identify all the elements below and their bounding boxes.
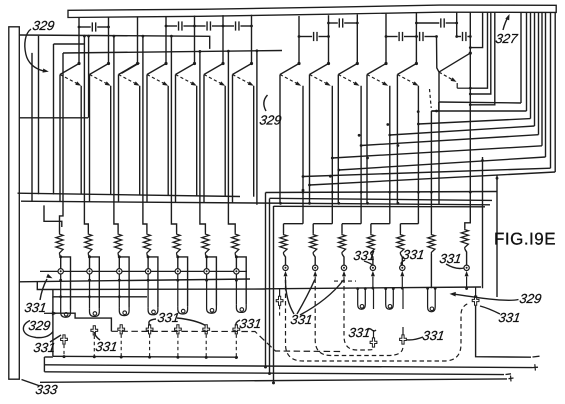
resistor R7 bbox=[232, 233, 239, 255]
node lamp N3 bbox=[118, 255, 119, 257]
svg-text:331: 331 bbox=[498, 310, 522, 325]
transistor Q13 (wide) bbox=[469, 52, 472, 55]
wire: rail y195 bbox=[18, 193, 241, 196]
wire: feed from top bus to transistor Q7 bbox=[251, 15, 253, 64]
wire: fan elbow stage Q12 bbox=[431, 102, 438, 111]
wire: Q13 emitter ladder bbox=[456, 83, 458, 88]
wire: emitter drop of stage 7 bbox=[253, 86, 255, 197]
capacitor C5 bbox=[329, 22, 338, 24]
capacitor C9 bbox=[416, 36, 418, 38]
resistor R12 bbox=[397, 233, 404, 254]
filament loop F bbox=[358, 289, 366, 310]
wire: drop R13 to rail bbox=[430, 254, 432, 288]
wire: rail through lamps y271.5 bbox=[40, 270, 58, 272]
wire: bus from left bar at y35 bbox=[19, 35, 210, 49]
wire: collector drop stage 9 bbox=[309, 75, 311, 204]
wire: emitter drop stage 8 feeding resistor bbox=[302, 86, 304, 224]
wire: enclosure drop 2 bbox=[269, 199, 271, 374]
wire: elbow to filament F3 bbox=[119, 257, 129, 308]
wire: collector drop stage 13 bbox=[438, 72, 440, 204]
wire: emitter drop stage 11 feeding resistor bbox=[389, 86, 391, 224]
wire: right rail y288.5 bbox=[266, 287, 482, 289]
svg-text:333: 333 bbox=[35, 382, 60, 397]
left supply bus bar (vertical) bbox=[9, 27, 19, 379]
terminal cross T6 bbox=[203, 325, 210, 334]
resistor R8 bbox=[280, 233, 287, 254]
wire: bottom bus 4 bbox=[40, 379, 507, 382]
capacitor C4 bbox=[223, 25, 234, 27]
wire: long rail y203 bbox=[21, 201, 490, 205]
wire: dashed loop a (outer) bbox=[286, 279, 469, 362]
wire: feed from top bus to transistor Q4 bbox=[165, 16, 167, 64]
wire: bottom bus 1 right segment with tick bbox=[476, 306, 531, 357]
wire: filament rail y297 bbox=[53, 289, 147, 297]
wire: emitter drop of stage 1 bbox=[80, 86, 82, 194]
terminal cross T2 bbox=[91, 326, 98, 335]
wire: right margin long drop bbox=[496, 175, 498, 298]
junction dots in fan region bbox=[308, 184, 311, 187]
node lamp N10 bbox=[342, 254, 344, 265]
resistor R14 bbox=[461, 228, 468, 249]
wire: hook feeding resistor R1 bbox=[60, 53, 64, 233]
wire: elbow to filament F5 bbox=[178, 257, 188, 306]
wire: feed to transistor Q13 bbox=[469, 12, 471, 105]
terminal cross T11 (right) bbox=[472, 296, 479, 305]
resistor R4 bbox=[143, 233, 150, 255]
wire: stub bus at y44 bbox=[54, 43, 85, 45]
node lamp N5 bbox=[177, 255, 178, 257]
filament loop F3 bbox=[119, 308, 129, 316]
wire: collector drop of stage 2 bbox=[89, 75, 91, 202]
node lamp N11 bbox=[371, 254, 373, 265]
resistor R11 bbox=[367, 233, 374, 254]
filament loop F7 bbox=[236, 305, 246, 313]
svg-text:327: 327 bbox=[495, 31, 520, 46]
svg-text:331: 331 bbox=[239, 316, 263, 331]
wire: collector drop of stage 5 bbox=[175, 75, 177, 203]
svg-text:329: 329 bbox=[32, 18, 56, 33]
terminal cross T7 bbox=[233, 325, 240, 334]
wire: long dash feeder bbox=[111, 331, 341, 351]
wire: fan line 6 bbox=[332, 146, 542, 158]
wire: nested return 1 bbox=[470, 12, 487, 88]
wire: return bus to left bar at y118 bbox=[19, 117, 88, 119]
node lamp N4 bbox=[147, 255, 148, 257]
transistor Q8 bbox=[297, 62, 300, 65]
wire: collector drop of stage 4 bbox=[146, 75, 148, 203]
wire: fan line 5 bbox=[361, 135, 538, 146]
capacitor C7 bbox=[299, 36, 312, 38]
filament loop F5 bbox=[178, 306, 188, 314]
transistor Q2 bbox=[107, 62, 110, 65]
wire: collector drop of stage 7 bbox=[232, 75, 234, 203]
wire: feed from top bus to transistor Q2 bbox=[108, 17, 110, 64]
wire: bypass drop of stage 6 bbox=[227, 50, 230, 53]
wire: feed from top bus to transistor Q11 bbox=[385, 14, 387, 64]
wire: long bus at y52 bbox=[63, 51, 282, 54]
svg-text:331: 331 bbox=[402, 247, 426, 262]
wire: Q13 feed continues to resistor R14 bbox=[465, 105, 471, 228]
wire: bypass drop of stage 7 bbox=[256, 49, 259, 52]
svg-text:331: 331 bbox=[439, 251, 463, 266]
wire: elbow to filament F6 bbox=[207, 257, 217, 306]
wire: emitter drop stage 12 feeding resistor bbox=[417, 86, 419, 224]
wire: collector drop of stage 6 bbox=[203, 75, 205, 203]
wire: emitter drop of stage 6 bbox=[224, 86, 226, 196]
wire: feed from top bus to transistor Q12 bbox=[415, 13, 417, 64]
wire: fan line 2 bbox=[431, 110, 526, 112]
capacitor C3 bbox=[195, 25, 206, 27]
wire: rail step y290 bbox=[37, 282, 265, 290]
wire: bypass drop of stage 4 bbox=[170, 35, 173, 38]
wire: emitter drop of stage 2 bbox=[110, 86, 112, 195]
wire: rail from bar y280 bbox=[19, 279, 250, 282]
wire: feed from top bus to transistor Q10 bbox=[356, 14, 358, 63]
wire: feed from top bus to transistor Q9 bbox=[328, 15, 330, 63]
wire: bypass drop of stage 3 bbox=[142, 35, 145, 38]
wire: elbow to filament F4 bbox=[148, 257, 158, 307]
svg-text:331: 331 bbox=[348, 325, 372, 340]
wire: feed from top bus to transistor Q1 bbox=[78, 17, 80, 63]
node lamp N2 bbox=[88, 255, 89, 257]
wire: bottom bus 2 bbox=[44, 365, 532, 368]
filament loop F6 bbox=[207, 306, 217, 314]
wire: collector drop stage 11 bbox=[366, 75, 368, 204]
wire: dashed loop b bbox=[315, 279, 403, 356]
wire: bottom bus 3 bbox=[44, 372, 504, 375]
wire: collector drop stage 8 bbox=[279, 75, 281, 204]
wire: nested return 3 bbox=[470, 12, 495, 105]
wire: collector drop stage 12 bbox=[396, 75, 398, 205]
wire: fan line 7 bbox=[339, 157, 546, 170]
wire: fan line 1 bbox=[439, 102, 521, 103]
wire: bottom bus 1 bbox=[52, 297, 54, 357]
capacitor C6 bbox=[416, 22, 439, 24]
transistor Q6 bbox=[221, 62, 224, 65]
terminal cross T5 bbox=[175, 325, 182, 334]
filament loop F1 bbox=[61, 310, 71, 318]
wire: feed from top bus to transistor Q3 bbox=[137, 16, 139, 63]
resistor R13 bbox=[428, 233, 435, 254]
terminal cross T3 bbox=[118, 325, 125, 334]
wire: nested return 2 bbox=[470, 12, 491, 94]
wire: enclosure drop 1 bbox=[265, 193, 267, 368]
resistor R5 bbox=[173, 233, 180, 255]
transistor Q12 bbox=[415, 62, 418, 65]
svg-text:329: 329 bbox=[28, 318, 52, 333]
filament loop F4 bbox=[148, 307, 158, 315]
wire: elbow to filament F7 bbox=[236, 257, 246, 305]
wire: bypass drop of stage 1 bbox=[83, 35, 86, 38]
capacitor C1 bbox=[79, 26, 91, 28]
svg-text:329: 329 bbox=[519, 291, 543, 306]
transistor Q7 bbox=[250, 62, 253, 65]
transistor Q5 bbox=[193, 62, 196, 65]
wire: feed from top bus to transistor Q6 bbox=[222, 15, 224, 63]
svg-text:331: 331 bbox=[24, 300, 48, 315]
node lamp N7 bbox=[235, 255, 236, 257]
svg-text:331: 331 bbox=[422, 328, 446, 343]
wire: elbow to filament F1 bbox=[61, 257, 71, 310]
transistor Q4 bbox=[164, 62, 167, 65]
transistor Q9 bbox=[327, 62, 330, 65]
svg-text:FIG.I9E: FIG.I9E bbox=[494, 230, 556, 249]
wire: emitter drop of stage 3 bbox=[139, 86, 141, 195]
resistor R9 bbox=[310, 233, 317, 254]
wire: lower fan lines bbox=[266, 192, 498, 193]
resistor R6 bbox=[202, 233, 209, 255]
terminal cross T1 bbox=[61, 335, 68, 344]
wire: bus2/3 left joins bbox=[43, 357, 45, 372]
terminal cross T9 bbox=[370, 338, 377, 347]
wire: elbow to filament F2 bbox=[90, 257, 100, 309]
junction dots on right rails bbox=[302, 191, 305, 194]
wire: short verticals near left bar bbox=[38, 36, 40, 194]
node lamp N1 bbox=[60, 255, 61, 257]
svg-text:331: 331 bbox=[157, 310, 181, 325]
filament loop F10 bbox=[428, 288, 436, 311]
transistor Q11 bbox=[384, 62, 387, 65]
wire: emitter drop stage 10 feeding resistor bbox=[360, 86, 362, 224]
wire: fan line 8 bbox=[303, 168, 551, 176]
wire: right margin drop to rail bbox=[482, 157, 484, 288]
wire: collector drop of stage 3 bbox=[118, 75, 120, 202]
node lamp N8 bbox=[284, 254, 286, 265]
resistor R10 bbox=[338, 233, 345, 254]
capacitor C2 bbox=[166, 25, 177, 27]
wire: staircase feeder bbox=[53, 313, 112, 331]
terminal cross T8 (left of group) bbox=[276, 296, 283, 305]
wire: dashed drop from Q12 arrow bbox=[430, 89, 432, 108]
capacitor C8 bbox=[386, 36, 398, 38]
transistor Q1 bbox=[77, 62, 80, 65]
capacitor C10 bbox=[457, 36, 461, 38]
wire: dashed-fed drop to resistor R13 bbox=[430, 111, 432, 233]
node lamp N9 bbox=[313, 254, 315, 265]
transistor Q3 bbox=[136, 62, 139, 65]
wire: emitter drop of stage 5 bbox=[196, 86, 198, 196]
resistor R3 bbox=[115, 233, 122, 255]
wire: doubled collector stroke at Q3 bbox=[122, 63, 140, 74]
wire: left feeder at x44 bbox=[44, 205, 62, 227]
resistor R2 bbox=[85, 233, 92, 255]
wire: bypass drop of stage 2 bbox=[113, 35, 116, 38]
wire: fan line 3 bbox=[418, 119, 530, 124]
wire: feed from top bus to transistor Q5 bbox=[194, 16, 196, 64]
wire: emitter drop stage 9 feeding resistor bbox=[331, 86, 333, 224]
filament loop F bbox=[386, 289, 394, 310]
wire: dashed stub on rail bbox=[334, 280, 356, 282]
terminal cross T10 bbox=[400, 335, 407, 344]
filament loop F2 bbox=[90, 309, 100, 317]
top supply bus bar 327 (horizontal) bbox=[68, 5, 556, 17]
wire: emitter drop of stage 4 bbox=[167, 86, 169, 196]
transistor Q10 bbox=[356, 62, 359, 65]
terminal cross T4 bbox=[146, 325, 153, 334]
node lamp N12 bbox=[400, 254, 402, 265]
wire: fan line 4 bbox=[390, 126, 535, 135]
wire: feed from top bus to transistor Q8 bbox=[298, 16, 300, 63]
wire: collector drop stage 10 bbox=[337, 75, 339, 204]
wire: dashed loop c bbox=[344, 279, 374, 351]
wire: nested return 4 bbox=[470, 12, 482, 47]
wire: collector drop of stage 1 bbox=[59, 75, 61, 202]
wire: enclosure drop 3 bbox=[273, 206, 275, 383]
wire: fan line 9 bbox=[310, 172, 556, 185]
node lamp N6 bbox=[205, 255, 206, 257]
wire: bypass drop of stage 5 bbox=[199, 50, 202, 53]
node lamp N14 bbox=[465, 249, 467, 265]
svg-text:329: 329 bbox=[259, 113, 283, 128]
svg-text:331: 331 bbox=[95, 339, 119, 354]
wire: feed through C6 node bbox=[456, 12, 458, 36]
wire: drop joining bar return y118 bbox=[88, 36, 90, 118]
resistor R1 bbox=[56, 233, 63, 255]
svg-text:331: 331 bbox=[33, 340, 57, 355]
